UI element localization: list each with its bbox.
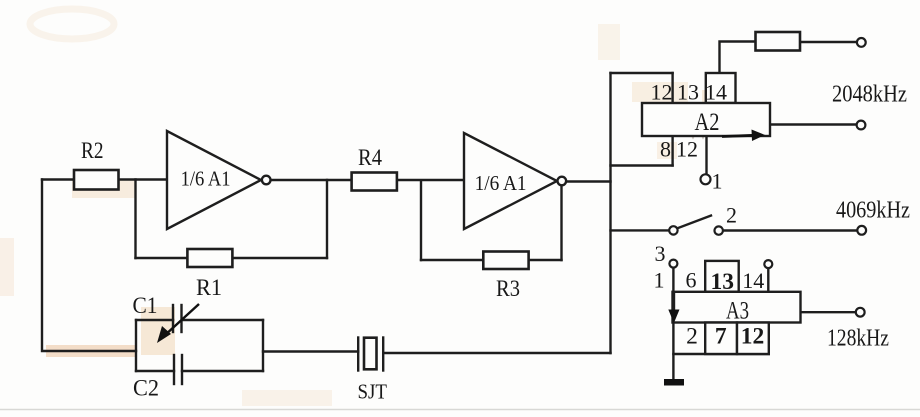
- svg-text:A3: A3: [726, 298, 749, 325]
- svg-text:128kHz: 128kHz: [827, 326, 889, 352]
- svg-text:1: 1: [712, 169, 723, 194]
- svg-text:8: 8: [660, 137, 671, 162]
- svg-text:6: 6: [686, 268, 697, 293]
- svg-text:14: 14: [742, 268, 764, 293]
- svg-text:R3: R3: [496, 276, 520, 301]
- svg-text:R4: R4: [358, 145, 382, 170]
- svg-text:2: 2: [726, 203, 737, 228]
- svg-text:1: 1: [654, 268, 665, 293]
- svg-text:12: 12: [741, 324, 765, 350]
- svg-text:12: 12: [676, 137, 698, 162]
- svg-text:14: 14: [705, 79, 727, 104]
- svg-text:1/6 A1: 1/6 A1: [475, 171, 527, 195]
- svg-text:SJT: SJT: [358, 379, 388, 403]
- svg-text:C2: C2: [133, 376, 159, 401]
- svg-text:13: 13: [677, 80, 699, 105]
- svg-text:4069kHz: 4069kHz: [836, 198, 910, 224]
- svg-text:C1: C1: [133, 293, 158, 318]
- svg-text:2048kHz: 2048kHz: [832, 82, 907, 108]
- svg-text:R2: R2: [81, 138, 104, 163]
- svg-text:1/6 A1: 1/6 A1: [181, 167, 231, 191]
- svg-text:R1: R1: [196, 275, 222, 300]
- svg-text:2: 2: [686, 324, 698, 350]
- svg-text:13: 13: [711, 269, 735, 295]
- svg-text:12: 12: [651, 80, 673, 105]
- svg-text:A2: A2: [695, 109, 720, 136]
- svg-text:3: 3: [655, 241, 666, 266]
- svg-text:7: 7: [715, 323, 727, 349]
